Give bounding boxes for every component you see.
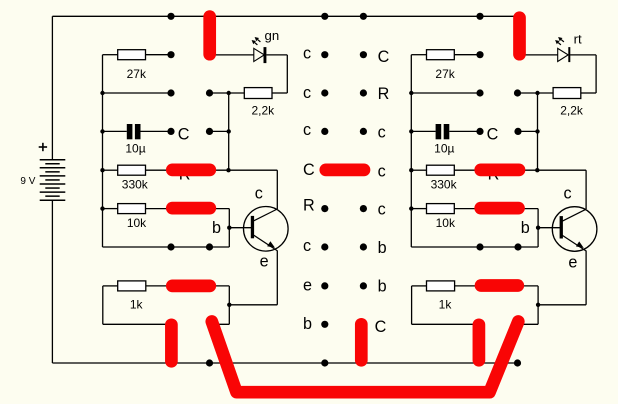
wire left cap row right (141, 130, 172, 132)
battery 9V (40, 159, 66, 161)
svg-text:c: c (303, 45, 311, 63)
red jumper mid row4 (326, 164, 364, 177)
red jumper left top vertical (203, 17, 216, 55)
wire right row3 hole to junction (518, 130, 537, 132)
resistor 27k R1a (118, 50, 146, 60)
node dots top rail (167, 13, 174, 20)
wire left 10k row to corner (210, 208, 230, 210)
svg-text:R: R (303, 196, 315, 214)
svg-text:C: C (303, 161, 315, 179)
svg-text:b: b (378, 239, 387, 257)
wire right cap row right (449, 130, 480, 132)
red jumper big U link (212, 322, 519, 393)
svg-text:C: C (378, 48, 390, 66)
transistor Q2 collector line (562, 209, 586, 221)
svg-text:c: c (378, 201, 386, 219)
node dots right block (476, 51, 483, 58)
red jumper right 10k row (481, 202, 519, 215)
wire left 2,2k vertical rail (228, 93, 230, 170)
wire left 27k row right (146, 54, 172, 56)
svg-text:10k: 10k (436, 216, 456, 230)
wire left 1k corner vertical (228, 286, 230, 324)
resistor 330k right (427, 165, 455, 175)
wire left 10k row mid (146, 208, 173, 210)
resistor 10k right (427, 204, 455, 214)
wire right LED cathode to corner (570, 54, 596, 56)
red jumper left 330k row (172, 164, 210, 177)
red jumper right 330k row (481, 164, 519, 177)
svg-text:1k: 1k (439, 297, 453, 311)
wire right collector vertical (585, 170, 587, 209)
svg-text:c: c (303, 237, 311, 255)
svg-text:gn: gn (265, 28, 280, 43)
wire right 1k bottom horizontal (412, 323, 481, 325)
svg-text:10µ: 10µ (125, 142, 145, 156)
transistor Q1 emitter line (253, 235, 277, 251)
wire right row2 hole to 2,2k (518, 92, 553, 94)
wire right 330k row to collector corner (518, 169, 586, 171)
wire right 27k row left (411, 54, 426, 56)
resistor 27k R2a (427, 50, 455, 60)
svg-text:c: c (378, 162, 386, 180)
wire right 1k left lead (412, 285, 427, 287)
svg-text:2,2k: 2,2k (251, 104, 275, 118)
wire left LED cathode corner vertical (286, 55, 288, 93)
svg-text:b: b (212, 219, 221, 237)
wire right base lead (538, 227, 560, 229)
wire right base vertical (537, 209, 539, 247)
red jumper mid bottom vertical (355, 324, 368, 360)
svg-text:C: C (375, 318, 387, 336)
red jumper right 1k row (481, 279, 518, 292)
wire right 2,2k vertical rail (537, 93, 539, 170)
resistor 2,2k right (553, 88, 581, 99)
junction dots (100, 91, 104, 95)
red jumper right bottom vertical (473, 325, 486, 361)
wire battery top (51, 16, 53, 159)
wire right emitter vertical (585, 251, 587, 305)
svg-text:rt: rt (574, 32, 582, 47)
svg-text:c: c (564, 185, 572, 203)
wire right 330k row mid (454, 169, 481, 171)
wire left 1k left lead (103, 285, 118, 287)
wire left 1k left vertical (102, 286, 104, 324)
wire right 10k row left (411, 208, 426, 210)
wire right cap row left (411, 130, 435, 132)
svg-text:b: b (303, 315, 312, 333)
wire right 10k row mid (454, 208, 481, 210)
svg-text:330k: 330k (431, 177, 458, 191)
wire left row2 rail to hole (103, 92, 172, 94)
wire left 10k row left (103, 208, 118, 210)
svg-text:9 V: 9 V (20, 176, 35, 187)
wire right row6 horizontal (411, 246, 538, 248)
svg-text:c: c (303, 121, 311, 139)
wire battery bottom (51, 200, 53, 363)
resistor 1k left (118, 281, 146, 291)
wire left vertical rail (102, 55, 104, 247)
LED D2 emission arrows (561, 40, 564, 42)
wire left row3 hole to junction (210, 130, 229, 132)
resistor 1k right (427, 281, 455, 291)
svg-text:b: b (378, 278, 387, 296)
wire right 10k row to corner (518, 208, 538, 210)
transistor Q1 collector line (253, 209, 277, 221)
red jumper left 10k row (172, 202, 210, 215)
battery plus sign (39, 146, 47, 148)
node dots bottom rail (206, 359, 213, 366)
svg-text:c: c (378, 123, 386, 141)
svg-text:e: e (303, 276, 312, 294)
wire left row6 horizontal (103, 246, 230, 248)
wire right row2 rail to hole (411, 92, 480, 94)
svg-text:e: e (568, 254, 577, 272)
wire left row8 stub to hole (210, 323, 230, 325)
capacitor 10µ left plates (127, 124, 133, 139)
resistor 10k left (118, 204, 146, 214)
wire left LED anode (210, 54, 254, 56)
svg-text:10k: 10k (127, 216, 147, 230)
wire left 27k row left (103, 54, 118, 56)
svg-text:R: R (378, 85, 390, 103)
svg-text:c: c (255, 185, 263, 203)
wire right 1k jumper to corner (519, 285, 538, 287)
wire left 1k bottom horizontal (103, 323, 172, 325)
wire left 2,2k to corner (272, 92, 287, 94)
wire left emitter horizontal (229, 304, 277, 306)
svg-text:c: c (303, 84, 311, 102)
wire left cap row left (103, 130, 127, 132)
wire right LED cathode corner vertical (595, 55, 597, 93)
wire top rail (52, 15, 517, 17)
red jumper right top vertical (513, 18, 526, 55)
wire bottom rail (52, 362, 517, 364)
wire right 1k left vertical (411, 286, 413, 324)
wire left base vertical (228, 209, 230, 247)
svg-text:1k: 1k (130, 297, 144, 311)
red jumper left bottom vertical (165, 325, 178, 362)
wire left 1k right lead (146, 285, 172, 287)
transistor Q2 body (552, 207, 597, 252)
wire left 330k row to collector corner (210, 169, 278, 171)
resistor 2,2k left (244, 88, 272, 99)
resistor 330k left (118, 165, 146, 175)
wire left collector vertical (276, 170, 278, 209)
node dots left block (167, 51, 174, 58)
wire right emitter horizontal (538, 304, 586, 306)
wire left emitter vertical (276, 251, 278, 305)
LED D1 emission arrows (258, 40, 261, 42)
svg-text:C: C (487, 125, 499, 143)
wire right 2,2k to corner (581, 92, 596, 94)
wire left 330k row mid (146, 169, 173, 171)
wire right vertical rail (410, 55, 412, 247)
svg-text:27k: 27k (127, 67, 147, 81)
capacitor 10µ right plates (436, 124, 442, 139)
node dots mid columns (321, 51, 328, 58)
svg-text:C: C (178, 125, 190, 143)
wire right 1k corner vertical (537, 286, 539, 324)
wire right LED anode (519, 54, 558, 56)
wire right 330k row left (411, 169, 426, 171)
svg-text:b: b (521, 219, 530, 237)
wire left base lead (229, 227, 251, 229)
wire right 1k right lead (455, 285, 481, 287)
transistor Q1 body (243, 207, 288, 252)
wire left LED cathode to corner (266, 54, 287, 56)
wire right row8 stub to hole (518, 323, 538, 325)
wire right 27k row right (454, 54, 480, 56)
svg-text:330k: 330k (122, 177, 149, 191)
LED green D1 (254, 48, 264, 61)
svg-text:e: e (260, 253, 269, 271)
svg-text:10µ: 10µ (434, 142, 454, 156)
wire left 330k row left (103, 169, 118, 171)
svg-text:2,2k: 2,2k (560, 104, 584, 118)
transistor Q2 emitter line (562, 235, 586, 251)
wire left row2 hole to 2,2k (210, 92, 245, 94)
svg-text:27k: 27k (435, 67, 455, 81)
wire left 1k jumper to corner (210, 285, 229, 287)
red jumper left 1k row (172, 280, 210, 293)
LED red D2 (558, 48, 569, 61)
